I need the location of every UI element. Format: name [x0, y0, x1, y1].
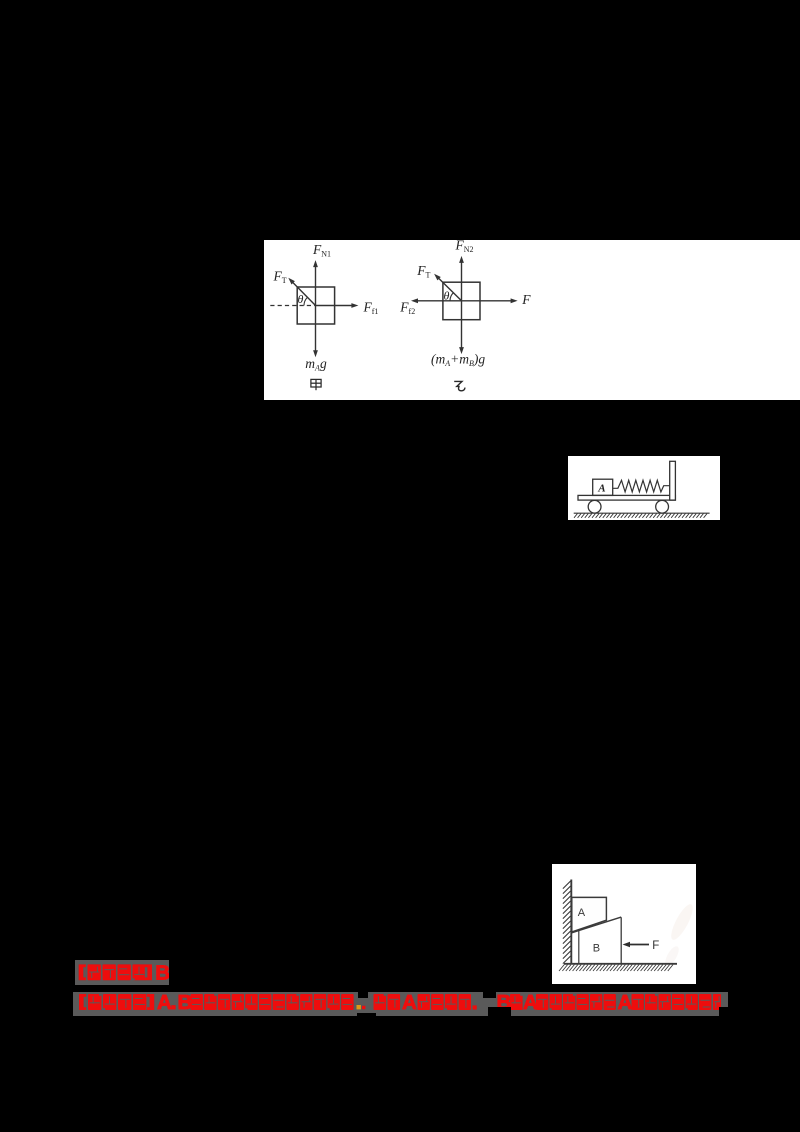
svg-text:FT: FT [273, 268, 287, 285]
svg-text:A: A [523, 992, 538, 1014]
ground hatching (cart) [574, 514, 707, 518]
wedge B left edge [578, 930, 580, 963]
red answer text: [cankao daan] B [79, 964, 86, 980]
gray highlight strip 1 (answer) [75, 960, 169, 985]
spring between A and cart wall [613, 480, 670, 492]
ground line (cart) [574, 512, 710, 514]
figure panel 1: free-body diagrams jia & yi [264, 240, 800, 400]
right wheel [656, 500, 669, 513]
svg-text:A: A [597, 483, 605, 495]
force arrow F right [462, 300, 512, 302]
svg-text:FT: FT [416, 263, 430, 280]
force arrow m_A g down [315, 306, 317, 352]
svg-text:F: F [521, 292, 531, 307]
block square (diagram yi) [443, 282, 480, 320]
block square (diagram jia) [297, 287, 334, 324]
left wheel [588, 500, 601, 513]
svg-text:F: F [652, 940, 659, 952]
incline top edge of wedge B [571, 917, 621, 933]
black notch under strip 2 (c) [488, 1007, 511, 1016]
label yi (CJK) [454, 381, 465, 390]
svg-text:θ: θ [444, 289, 450, 303]
red analysis text line [79, 994, 86, 1010]
angle arc theta (yi) [450, 293, 453, 301]
svg-text:A: A [402, 992, 417, 1014]
block A on cart [593, 479, 613, 495]
ground line (fig3) [564, 963, 677, 965]
svg-text:mAg: mAg [305, 356, 327, 373]
svg-text:(mA+mB)g: (mA+mB)g [431, 352, 485, 369]
svg-text:A: A [618, 992, 633, 1014]
force arrow F_N2 up [461, 262, 463, 301]
svg-text:Ff1: Ff1 [363, 299, 379, 316]
wedge B right edge [620, 917, 622, 963]
label jia (CJK) [311, 379, 321, 390]
figure panel 2: cart with spring and block A [568, 456, 720, 520]
force arrow F_N1 up [315, 266, 317, 305]
black notch under strip 2 (d) [357, 1013, 376, 1016]
force arrow F_f2 left [417, 300, 462, 302]
force arrow F_T up-left (yi) [438, 278, 461, 301]
svg-text:A: A [578, 907, 586, 919]
wall hatching [563, 881, 571, 964]
force arrow (mA+mB)g down [461, 301, 463, 348]
force arrow F_T up-left [293, 282, 316, 305]
svg-text:A: A [157, 992, 172, 1014]
cart end wall [670, 461, 676, 500]
svg-text:B: B [155, 962, 169, 985]
force arrow F_f1 right [316, 305, 353, 307]
svg-text:θ: θ [298, 292, 304, 306]
svg-text:Ff2: Ff2 [399, 300, 415, 317]
svg-text:FN1: FN1 [312, 242, 331, 259]
figure panel 3: blocks A and B against wall with force F [552, 864, 696, 984]
block A (on incline, against wall) [572, 897, 607, 932]
black step at right end of strip 2 [719, 1007, 728, 1016]
svg-text:B: B [178, 992, 193, 1014]
black notch over strip 2 (b) [483, 992, 496, 998]
angle arc theta (jia) [304, 297, 307, 305]
gray highlight strip 2 (analysis) [73, 992, 728, 1016]
vertical wall line [570, 880, 572, 965]
faint watermark smudge [663, 902, 697, 968]
cart deck [578, 495, 675, 500]
ground hatching (fig3) [559, 965, 673, 971]
black notch over strip 2 (a) [358, 992, 368, 998]
svg-text:FN2: FN2 [455, 240, 474, 254]
force arrow F pushing B [629, 944, 649, 946]
dashed horizontal reference line [270, 305, 315, 307]
svg-text:B: B [593, 943, 600, 955]
